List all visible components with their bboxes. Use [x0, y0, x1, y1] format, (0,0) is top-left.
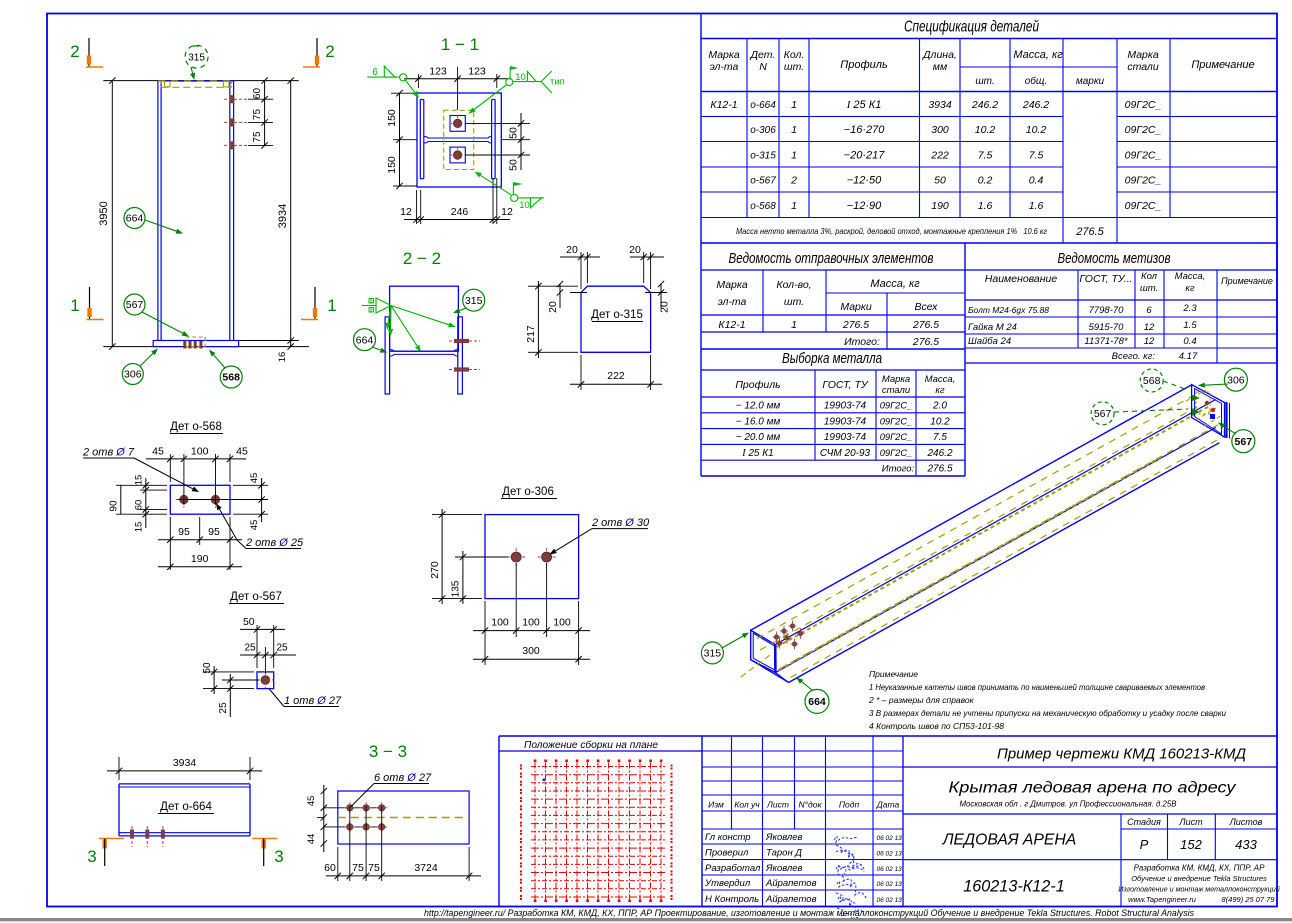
svg-text:664: 664	[126, 213, 144, 225]
svg-text:276.5: 276.5	[1075, 226, 1104, 238]
svg-text:шт.: шт.	[1140, 283, 1158, 294]
svg-text:Подп: Подп	[839, 800, 860, 810]
svg-text:Шайба 24: Шайба 24	[968, 336, 1011, 347]
svg-text:100: 100	[491, 617, 509, 629]
svg-text:123: 123	[468, 66, 486, 78]
svg-text:315: 315	[188, 53, 205, 64]
svg-text:306: 306	[1227, 374, 1245, 386]
svg-text:Примечание: Примечание	[1191, 59, 1254, 71]
svg-text:315: 315	[704, 648, 722, 660]
svg-text:222: 222	[607, 370, 625, 382]
svg-text:Разработал: Разработал	[705, 863, 761, 874]
svg-text:44: 44	[306, 834, 317, 845]
svg-text:160213-К12-1: 160213-К12-1	[963, 878, 1065, 896]
svg-text:Дет.: Дет.	[750, 49, 776, 61]
svg-text:3724: 3724	[414, 862, 438, 874]
svg-text:190: 190	[191, 553, 209, 565]
svg-text:123: 123	[429, 66, 447, 78]
svg-text:Болт М24-6gх 75.88: Болт М24-6gх 75.88	[968, 305, 1049, 315]
svg-text:Профиль: Профиль	[840, 59, 888, 71]
svg-text:СЧМ 20-93: СЧМ 20-93	[820, 448, 871, 459]
svg-text:Гайка М 24: Гайка М 24	[968, 322, 1017, 333]
svg-text:I 25 К1: I 25 К1	[846, 99, 882, 111]
svg-text:шт.: шт.	[975, 76, 994, 87]
svg-text:217: 217	[525, 325, 537, 343]
svg-text:Лист: Лист	[1178, 817, 1203, 827]
svg-text:1.5: 1.5	[1183, 320, 1197, 331]
svg-text:− 16.0 мм: − 16.0 мм	[736, 416, 781, 427]
svg-text:75: 75	[352, 862, 364, 874]
svg-text:Положение сборки на плане: Положение сборки на плане	[524, 739, 658, 751]
svg-text:276.5: 276.5	[912, 319, 939, 331]
svg-text:19903-74: 19903-74	[824, 401, 867, 412]
svg-text:3 В размерах детали не учтены: 3 В размерах детали не учтены припуски н…	[869, 708, 1226, 718]
svg-text:Масса, кг: Масса, кг	[870, 278, 920, 290]
svg-text:19903-74: 19903-74	[824, 432, 867, 443]
svg-text:45: 45	[306, 796, 317, 807]
svg-text:19903-74: 19903-74	[824, 416, 867, 427]
svg-text:шт.: шт.	[784, 296, 804, 308]
svg-text:7.5: 7.5	[978, 150, 993, 162]
svg-text:Обучение и внедрение Tekla St: Обучение и внедрение Tekla Structures	[1131, 874, 1267, 883]
svg-text:www.Tapengineer.ru: www.Tapengineer.ru	[1128, 895, 1197, 904]
svg-text:Гл констр: Гл констр	[705, 832, 751, 843]
svg-text:45: 45	[152, 446, 164, 458]
svg-text:25: 25	[218, 702, 229, 714]
svg-text:1 Неуказанные катеты швов при: 1 Неуказанные катеты швов принимать по н…	[869, 682, 1206, 692]
svg-text:Дет о-315: Дет о-315	[591, 309, 643, 321]
svg-text:12: 12	[501, 206, 513, 218]
svg-text:135: 135	[451, 580, 462, 597]
svg-text:222: 222	[930, 150, 949, 162]
svg-text:о-306: о-306	[750, 125, 776, 136]
svg-text:Утвердил: Утвердил	[704, 878, 751, 889]
svg-text:1.6: 1.6	[1029, 200, 1044, 212]
svg-text:300: 300	[522, 645, 540, 657]
svg-text:Дет о-664: Дет о-664	[160, 801, 212, 813]
svg-text:09Г2С_: 09Г2С_	[880, 401, 912, 411]
svg-text:в: в	[370, 298, 373, 304]
svg-text:3950: 3950	[98, 201, 110, 225]
svg-text:100: 100	[553, 617, 571, 629]
svg-text:60: 60	[324, 862, 336, 874]
svg-text:568: 568	[1143, 375, 1161, 387]
svg-text:1: 1	[791, 319, 797, 331]
svg-text:06 02 13: 06 02 13	[877, 851, 903, 858]
svg-text:246: 246	[451, 206, 469, 218]
svg-text:Выборка металла: Выборка металла	[782, 351, 882, 367]
svg-text:10.2: 10.2	[1026, 124, 1047, 136]
svg-text:2 отв Ø 30: 2 отв Ø 30	[591, 517, 650, 529]
svg-text:06 02 13: 06 02 13	[877, 897, 903, 904]
svg-text:Ведомость метизов: Ведомость метизов	[1058, 251, 1171, 267]
svg-text:К12-1: К12-1	[710, 99, 737, 111]
svg-text:0.2: 0.2	[978, 175, 993, 187]
svg-text:12: 12	[1144, 336, 1155, 347]
svg-text:3 − 3: 3 − 3	[369, 742, 407, 761]
svg-text:Разработка КМ, КМД, КХ, ППР, А: Разработка КМ, КМД, КХ, ППР, АР	[1134, 864, 1266, 873]
svg-text:К12-1: К12-1	[718, 319, 745, 331]
svg-text:1: 1	[791, 99, 797, 111]
svg-text:45: 45	[249, 520, 260, 531]
svg-text:1.6: 1.6	[978, 200, 993, 212]
svg-text:20: 20	[566, 244, 578, 256]
svg-text:90: 90	[109, 500, 120, 512]
svg-text:20: 20	[659, 301, 671, 313]
svg-text:Кол.: Кол.	[784, 49, 805, 61]
svg-text:20: 20	[629, 244, 641, 256]
svg-text:09Г2С_: 09Г2С_	[880, 448, 912, 458]
svg-text:Яковлев: Яковлев	[765, 863, 803, 874]
svg-text:мм: мм	[933, 61, 947, 73]
svg-text:12: 12	[1144, 322, 1155, 333]
svg-text:7.5: 7.5	[1029, 150, 1044, 162]
svg-text:3: 3	[87, 847, 96, 866]
svg-text:7798-70: 7798-70	[1089, 305, 1125, 316]
svg-text:Масса,: Масса,	[1175, 271, 1206, 282]
svg-text:10: 10	[515, 72, 526, 83]
svg-text:в: в	[370, 307, 373, 313]
svg-text:50: 50	[243, 616, 255, 628]
svg-text:10.2: 10.2	[930, 416, 950, 427]
svg-text:2 * – размеры для справок: 2 * – размеры для справок	[868, 695, 975, 705]
svg-text:8(499) 25 07 79: 8(499) 25 07 79	[1222, 895, 1276, 904]
svg-text:ГОСТ, ТУ...: ГОСТ, ТУ...	[1079, 273, 1132, 285]
svg-text:2.3: 2.3	[1182, 303, 1197, 314]
svg-text:Дет о-568: Дет о-568	[170, 421, 222, 433]
svg-text:2 отв Ø 7: 2 отв Ø 7	[82, 447, 135, 459]
svg-text:100: 100	[522, 617, 540, 629]
svg-text:Спецификация деталей: Спецификация деталей	[904, 19, 1039, 36]
svg-text:95: 95	[178, 526, 190, 538]
svg-text:Айрапетов: Айрапетов	[765, 894, 817, 905]
svg-text:Московская обл . г Дмитров. ул: Московская обл . г Дмитров. ул Профессио…	[960, 799, 1177, 809]
svg-text:2.0: 2.0	[932, 401, 947, 412]
svg-text:Наименование: Наименование	[985, 273, 1058, 285]
svg-text:ГОСТ, ТУ: ГОСТ, ТУ	[822, 379, 868, 391]
svg-text:Марка: Марка	[1127, 49, 1159, 61]
svg-text:10.2: 10.2	[975, 124, 996, 136]
svg-text:276.5: 276.5	[912, 336, 939, 348]
svg-text:Дата: Дата	[876, 800, 900, 810]
svg-text:2: 2	[70, 42, 79, 61]
svg-text:−12·90: −12·90	[847, 200, 882, 212]
svg-text:Кол-во,: Кол-во,	[776, 279, 811, 291]
svg-text:Изм: Изм	[708, 800, 724, 810]
svg-text:45: 45	[236, 446, 248, 458]
svg-text:100: 100	[191, 446, 209, 458]
svg-text:− 20.0 мм: − 20.0 мм	[736, 432, 781, 443]
svg-text:Дет о-306: Дет о-306	[502, 486, 554, 498]
svg-text:2: 2	[325, 42, 334, 61]
svg-text:1 − 1: 1 − 1	[441, 35, 479, 54]
svg-text:N°док: N°док	[799, 800, 823, 810]
svg-text:Итого:: Итого:	[844, 336, 880, 348]
svg-text:1: 1	[70, 296, 79, 315]
svg-text:246.2: 246.2	[926, 448, 952, 459]
svg-text:о-568: о-568	[750, 201, 776, 212]
svg-text:664: 664	[356, 334, 374, 346]
svg-text:246.2: 246.2	[971, 99, 998, 111]
svg-text:152: 152	[1180, 837, 1202, 852]
svg-text:Н Контроль: Н Контроль	[705, 894, 759, 905]
svg-text:4.17: 4.17	[1179, 351, 1198, 362]
svg-text:75: 75	[252, 109, 263, 121]
svg-text:150: 150	[386, 156, 398, 174]
svg-text:09Г2С_: 09Г2С_	[880, 432, 912, 442]
svg-text:−12·50: −12·50	[847, 175, 882, 187]
svg-text:246.2: 246.2	[1022, 99, 1049, 111]
svg-text:Примечание: Примечание	[1221, 276, 1273, 286]
svg-text:276.5: 276.5	[842, 319, 869, 331]
svg-text:ЛЕДОВАЯ АРЕНА: ЛЕДОВАЯ АРЕНА	[942, 832, 1077, 849]
svg-text:http://tapengineer.ru/ Разраб: http://tapengineer.ru/ Разработка КМ, КМ…	[424, 908, 1194, 919]
svg-text:5915-70: 5915-70	[1089, 322, 1125, 333]
svg-text:кг: кг	[935, 385, 944, 396]
svg-text:0.4: 0.4	[1183, 336, 1196, 347]
svg-text:I 25 К1: I 25 К1	[741, 448, 773, 459]
svg-text:09Г2С_: 09Г2С_	[1125, 124, 1162, 136]
svg-text:Длина,: Длина,	[922, 49, 957, 61]
svg-text:о-567: о-567	[750, 176, 776, 187]
svg-text:о-315: о-315	[750, 151, 776, 162]
svg-text:75: 75	[252, 131, 263, 143]
svg-text:09Г2С_: 09Г2С_	[1125, 99, 1162, 111]
svg-text:45: 45	[249, 473, 260, 484]
svg-text:06 02 13: 06 02 13	[877, 866, 903, 873]
svg-text:стали: стали	[882, 385, 911, 396]
svg-text:−20·217: −20·217	[844, 150, 886, 162]
svg-text:7.5: 7.5	[933, 432, 947, 443]
svg-text:тип: тип	[550, 77, 565, 88]
svg-text:190: 190	[931, 200, 949, 212]
svg-text:6: 6	[372, 67, 378, 78]
svg-text:11371-78*: 11371-78*	[1084, 336, 1127, 347]
svg-text:1: 1	[791, 124, 797, 136]
svg-text:25: 25	[276, 643, 288, 654]
svg-text:50: 50	[508, 159, 520, 171]
svg-text:568: 568	[222, 372, 240, 384]
svg-text:Масса, кг: Масса, кг	[1013, 49, 1063, 61]
svg-text:25: 25	[244, 643, 256, 654]
svg-text:стали: стали	[1127, 61, 1159, 73]
svg-text:3: 3	[274, 847, 283, 866]
svg-text:Итого:: Итого:	[882, 464, 915, 475]
svg-text:Марка: Марка	[882, 374, 910, 385]
svg-text:664: 664	[808, 696, 826, 708]
svg-text:306: 306	[124, 369, 142, 381]
svg-text:1: 1	[791, 200, 797, 212]
svg-text:Кол: Кол	[1141, 271, 1158, 282]
svg-text:0.4: 0.4	[1029, 175, 1044, 187]
svg-text:Всего. кг:: Всего. кг:	[1112, 351, 1156, 362]
svg-text:20: 20	[547, 301, 559, 313]
svg-text:50: 50	[508, 127, 520, 139]
svg-text:06 02 13: 06 02 13	[877, 835, 903, 842]
svg-text:12: 12	[400, 206, 412, 218]
svg-text:433: 433	[1235, 837, 1257, 852]
svg-text:6: 6	[1146, 305, 1152, 316]
svg-text:Марки: Марки	[840, 301, 872, 313]
svg-text:Лист: Лист	[766, 800, 789, 810]
svg-text:о-664: о-664	[750, 100, 776, 111]
svg-text:16: 16	[277, 352, 288, 363]
svg-text:6 отв Ø 27: 6 отв Ø 27	[374, 772, 432, 784]
svg-text:Проверил: Проверил	[705, 848, 749, 859]
svg-text:4 Контроль швов по СП53-101-9: 4 Контроль швов по СП53-101-98	[869, 721, 1004, 731]
svg-text:Масса нетто металла 3%, раскро: Масса нетто металла 3%, раскрой, деловой…	[736, 226, 1047, 236]
svg-text:N: N	[759, 61, 767, 73]
svg-text:50: 50	[934, 175, 946, 187]
svg-text:Марка: Марка	[708, 49, 740, 61]
svg-text:Примечание: Примечание	[869, 669, 918, 679]
svg-text:Р: Р	[1140, 837, 1149, 852]
svg-text:Марка: Марка	[716, 279, 748, 291]
svg-text:09Г2С_: 09Г2С_	[1125, 175, 1162, 187]
svg-text:60: 60	[134, 500, 145, 511]
svg-text:марки: марки	[1076, 76, 1105, 87]
svg-text:Всех: Всех	[915, 301, 939, 313]
svg-text:3934: 3934	[928, 99, 952, 111]
svg-text:Кол уч: Кол уч	[734, 800, 760, 810]
svg-text:50: 50	[202, 662, 213, 674]
svg-text:3934: 3934	[277, 204, 289, 228]
svg-text:Крытая ледовая арена по адресу: Крытая ледовая арена по адресу	[949, 780, 1237, 797]
svg-text:2 отв Ø 25: 2 отв Ø 25	[245, 537, 304, 549]
svg-text:09Г2С_: 09Г2С_	[1125, 200, 1162, 212]
svg-text:2 − 2: 2 − 2	[403, 249, 441, 268]
svg-text:567: 567	[1235, 436, 1253, 448]
svg-text:06 02 13: 06 02 13	[877, 881, 903, 888]
svg-text:60: 60	[252, 88, 263, 100]
svg-text:Ведомость отправочных элементо: Ведомость отправочных элементов	[729, 251, 934, 267]
svg-text:кг: кг	[1185, 283, 1194, 294]
svg-text:Стадия: Стадия	[1127, 817, 1161, 827]
svg-text:150: 150	[386, 109, 398, 127]
svg-text:шт.: шт.	[784, 61, 804, 73]
svg-text:1 отв Ø 27: 1 отв Ø 27	[284, 695, 342, 707]
svg-text:Айрапетов: Айрапетов	[765, 878, 817, 889]
svg-text:Масса,: Масса,	[925, 374, 956, 385]
svg-text:эл-та: эл-та	[710, 61, 739, 73]
svg-text:09Г2С_: 09Г2С_	[1125, 150, 1162, 162]
svg-text:567: 567	[1094, 408, 1112, 420]
svg-text:567: 567	[126, 299, 144, 311]
svg-text:Дет о-567: Дет о-567	[230, 591, 282, 603]
svg-text:09Г2С_: 09Г2С_	[880, 416, 912, 426]
svg-text:315: 315	[465, 295, 483, 307]
svg-text:3934: 3934	[173, 757, 197, 769]
svg-text:Тарон Д: Тарон Д	[766, 848, 802, 859]
svg-text:75: 75	[368, 862, 380, 874]
svg-text:− 12.0 мм: − 12.0 мм	[736, 401, 781, 412]
svg-text:1: 1	[327, 296, 336, 315]
svg-text:276.5: 276.5	[926, 464, 952, 475]
svg-text:10: 10	[519, 200, 530, 211]
svg-text:эл-та: эл-та	[718, 296, 747, 308]
svg-text:1: 1	[791, 150, 797, 162]
svg-text:Профиль: Профиль	[735, 379, 780, 391]
svg-text:общ.: общ.	[1025, 75, 1047, 87]
svg-text:Пример чертежи КМД 160213-КМД: Пример чертежи КМД 160213-КМД	[997, 746, 1246, 763]
svg-text:95: 95	[208, 526, 220, 538]
svg-text:15: 15	[134, 522, 145, 533]
svg-text:Яковлев: Яковлев	[765, 832, 803, 843]
svg-text:270: 270	[429, 561, 441, 579]
svg-text:Изготовление и монтаж металлок: Изготовление и монтаж металлоконструкций	[1118, 885, 1280, 894]
svg-text:2: 2	[790, 175, 797, 187]
svg-text:Листов: Листов	[1229, 817, 1263, 827]
svg-text:−16·270: −16·270	[844, 124, 886, 136]
svg-text:300: 300	[931, 124, 949, 136]
svg-text:15: 15	[134, 475, 145, 486]
